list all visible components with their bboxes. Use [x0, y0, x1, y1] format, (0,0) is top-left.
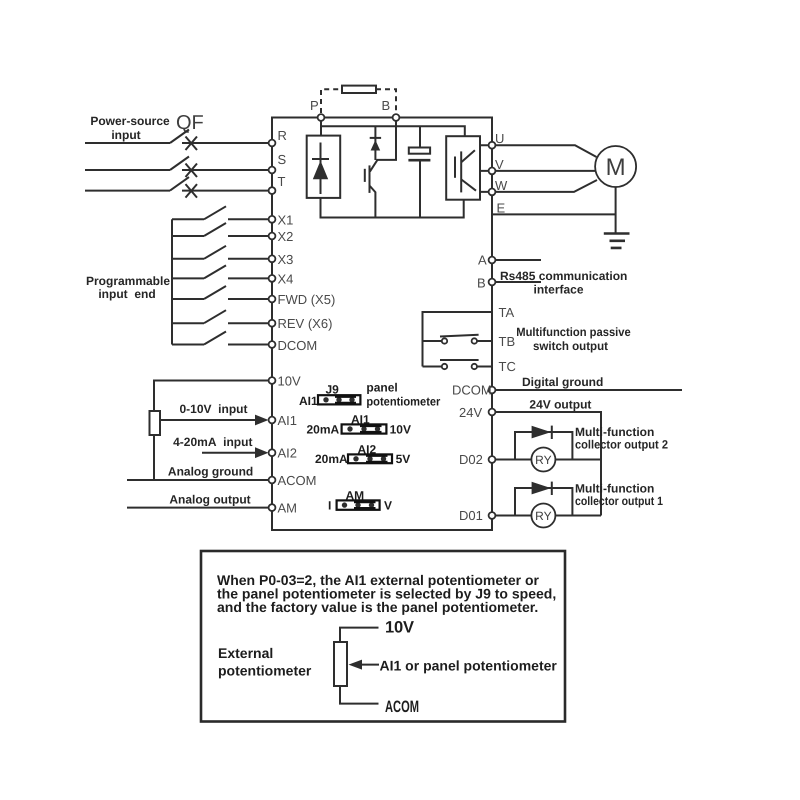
svg-text:input: input: [111, 128, 140, 142]
terminal X3: [269, 255, 276, 262]
jumper AM: [337, 500, 380, 509]
svg-text:T: T: [278, 174, 286, 189]
svg-text:Multifunction passive: Multifunction passive: [516, 325, 631, 339]
terminal P: [318, 114, 325, 121]
inverter IGBT collector: [461, 150, 475, 162]
chopper IGBT emitter: [370, 186, 376, 218]
terminal X4: [269, 275, 276, 282]
switch blade QF pole S: [170, 157, 189, 171]
chopper IGBT gate bar: [364, 169, 366, 182]
relay common wire TA: [423, 312, 493, 367]
terminal B: [393, 114, 400, 121]
terminal S: [269, 167, 276, 174]
svg-text:potentiometer: potentiometer: [218, 663, 312, 679]
svg-text:TA: TA: [499, 305, 515, 320]
wire 4-20mA to AI2: [202, 452, 258, 454]
motor M1: [595, 146, 636, 187]
wire A RS485: [492, 259, 541, 261]
terminal X1: [269, 216, 276, 223]
svg-text:collector output 1: collector output 1: [575, 494, 663, 508]
wire 10V feed: [154, 381, 272, 481]
terminal R: [269, 140, 276, 147]
switch X4: [172, 265, 272, 278]
svg-text:U: U: [495, 131, 504, 146]
diode D02: [532, 426, 551, 439]
svg-text:AM: AM: [346, 489, 365, 503]
terminal AI2: [269, 449, 276, 456]
chopper IGBT collector: [370, 160, 378, 172]
braking resistor dashed link P side: [321, 89, 342, 113]
D02 freewheel loop: [515, 432, 572, 460]
svg-text:V: V: [495, 157, 504, 172]
wire analog ground: [127, 479, 272, 481]
svg-text:20mA: 20mA: [307, 423, 340, 437]
chopper diode triangle: [371, 140, 381, 151]
svg-text:J9: J9: [326, 383, 340, 397]
terminal FWD (X5): [269, 296, 276, 303]
svg-text:D02: D02: [459, 452, 483, 467]
wire 24V output: [492, 412, 601, 516]
diode D01: [532, 482, 551, 495]
svg-text:5V: 5V: [396, 452, 411, 466]
svg-text:I: I: [328, 499, 331, 513]
main inverter box: [272, 118, 492, 531]
switch X2: [172, 223, 272, 236]
wire S to terminal: [182, 169, 272, 171]
terminal AM: [269, 504, 276, 511]
svg-text:10V: 10V: [385, 619, 414, 637]
svg-text:ACOM: ACOM: [278, 473, 317, 488]
svg-text:M: M: [606, 154, 626, 181]
terminal D02: [489, 456, 496, 463]
inverter IGBT gate bar: [454, 157, 456, 178]
wire digital ground: [492, 389, 682, 391]
svg-text:FWD (X5): FWD (X5): [278, 292, 336, 307]
svg-text:potentiometer: potentiometer: [366, 395, 440, 409]
switch FWD: [172, 286, 272, 299]
terminal T: [269, 187, 276, 194]
svg-text:input end: input end: [98, 287, 155, 301]
wire D01 branch: [492, 515, 601, 517]
wire U output: [480, 145, 597, 157]
svg-text:TB: TB: [499, 334, 516, 349]
relay coil RY 1: [531, 504, 555, 528]
digital input bus: [171, 219, 173, 344]
wire DC bus bottom rail: [321, 198, 464, 218]
note box: [201, 551, 565, 722]
switch blade QF pole R: [170, 130, 189, 144]
DC bus capacitor top lead: [419, 126, 421, 147]
svg-text:Programmable: Programmable: [86, 274, 170, 288]
rectifier module box: [307, 136, 341, 198]
svg-text:TC: TC: [499, 359, 516, 374]
terminal X2: [269, 233, 276, 240]
chopper IGBT channel bar: [369, 165, 371, 193]
rectifier diode cathode bar: [312, 158, 329, 160]
svg-text:and the factory value is the p: and the factory value is the panel poten…: [217, 599, 538, 615]
svg-text:10V: 10V: [390, 423, 411, 437]
terminal 10V: [269, 377, 276, 384]
svg-text:X2: X2: [278, 229, 294, 244]
pot wiper wire to AI1: [160, 419, 258, 421]
svg-text:DCOM: DCOM: [278, 338, 318, 353]
inverter module box: [446, 136, 480, 200]
svg-text:AI2: AI2: [278, 446, 298, 461]
motor stem wire: [615, 187, 617, 234]
svg-text:AI2: AI2: [358, 443, 377, 457]
svg-text:Digital ground: Digital ground: [522, 375, 603, 389]
terminal AI1: [269, 417, 276, 424]
external potentiometer body (note): [334, 642, 347, 686]
wire R phase left: [85, 142, 170, 144]
D01 freewheel loop: [515, 488, 572, 516]
wire D02 branch: [492, 459, 601, 461]
svg-text:E: E: [497, 201, 506, 216]
svg-text:Power-source: Power-source: [90, 114, 170, 128]
capacitor top plate: [409, 148, 430, 154]
svg-text:Analog output: Analog output: [169, 493, 250, 507]
wire R to terminal: [182, 142, 272, 144]
terminal W: [489, 189, 496, 196]
svg-text:AM: AM: [278, 501, 298, 516]
jumper AI2: [348, 454, 392, 463]
braking resistor dashed link B side: [376, 89, 396, 113]
switch REV: [172, 310, 272, 323]
chopper diode cathode bar: [370, 137, 381, 139]
svg-text:R: R: [278, 128, 287, 143]
inverter IGBT channel bar: [460, 151, 462, 192]
fuse X mark T: [186, 184, 198, 198]
terminal B RS485: [489, 279, 496, 286]
svg-text:0-10V input: 0-10V input: [179, 402, 247, 416]
fuse X mark R: [186, 137, 198, 151]
svg-text:20mA: 20mA: [315, 452, 348, 466]
svg-text:collector output 2: collector output 2: [575, 438, 668, 452]
terminal A: [489, 257, 496, 264]
ground symbol: [604, 234, 630, 248]
svg-text:QF: QF: [176, 112, 204, 134]
svg-text:panel: panel: [366, 381, 397, 395]
wire T to terminal: [182, 190, 272, 192]
terminal V: [489, 168, 496, 175]
4-20mA arrowhead: [255, 447, 269, 458]
terminal D01: [489, 512, 496, 519]
svg-text:Analog ground: Analog ground: [168, 465, 253, 479]
switch blade QF pole T: [170, 177, 189, 191]
wire V output: [480, 170, 595, 172]
terminal DCOM left: [269, 341, 276, 348]
svg-text:REV (X6): REV (X6): [278, 316, 333, 331]
terminal DCOM right: [489, 387, 496, 394]
svg-text:24V output: 24V output: [529, 398, 591, 412]
svg-text:Rs485 communication: Rs485 communication: [500, 269, 627, 283]
svg-text:X3: X3: [278, 252, 294, 267]
switch X1: [172, 206, 272, 219]
wire T phase left: [85, 190, 170, 192]
relay contact TC: [423, 366, 493, 368]
svg-text:4-20mA input: 4-20mA input: [173, 435, 252, 449]
svg-text:switch output: switch output: [533, 339, 608, 353]
switch DCOM: [172, 332, 272, 345]
svg-text:External: External: [218, 645, 273, 661]
wiper arrowhead: [255, 415, 269, 426]
svg-text:RY: RY: [535, 453, 551, 467]
braking resistor: [342, 86, 376, 93]
relay coil RY 2: [531, 448, 555, 472]
svg-text:A: A: [478, 253, 487, 268]
svg-text:24V: 24V: [459, 405, 482, 420]
wire W output: [480, 180, 597, 192]
svg-text:B: B: [477, 276, 486, 291]
svg-text:AI1: AI1: [278, 413, 298, 428]
relay contact TB: [423, 340, 493, 342]
jumper AI1: [342, 424, 387, 433]
chopper diode wire: [374, 126, 376, 160]
terminal 24V: [489, 409, 496, 416]
svg-text:X4: X4: [278, 271, 294, 286]
svg-text:S: S: [278, 152, 287, 167]
rectifier diode triangle: [313, 161, 328, 180]
pot 10V lead: [340, 628, 379, 704]
wire P drop to rectifier: [320, 118, 322, 136]
svg-text:W: W: [495, 178, 508, 193]
svg-text:V: V: [384, 499, 392, 513]
svg-text:10V: 10V: [278, 374, 301, 389]
wire B RS485: [492, 281, 541, 283]
switch X3: [172, 246, 272, 259]
terminal REV (X6): [269, 320, 276, 327]
fuse X mark S: [186, 164, 198, 178]
wire DC bus top rail: [321, 126, 465, 136]
external potentiometer body: [150, 411, 161, 435]
jumper J9: [318, 395, 360, 404]
wire analog output: [127, 507, 272, 509]
svg-text:AI1 or panel potentiometer: AI1 or panel potentiometer: [380, 658, 558, 674]
svg-text:interface: interface: [533, 283, 583, 297]
rectifier diode wire: [320, 143, 322, 195]
svg-text:AI1: AI1: [351, 413, 370, 427]
svg-text:B: B: [382, 98, 391, 113]
inverter IGBT emitter: [461, 180, 476, 191]
svg-text:AI1: AI1: [299, 394, 318, 408]
wire E ground line: [492, 213, 616, 215]
svg-text:X1: X1: [278, 212, 294, 227]
svg-text:D01: D01: [459, 508, 483, 523]
terminal ACOM: [269, 477, 276, 484]
wire S phase left: [85, 169, 170, 171]
wire B drop to chopper node: [376, 118, 396, 160]
svg-text:DCOM: DCOM: [452, 383, 492, 398]
svg-text:ACOM: ACOM: [385, 698, 419, 716]
svg-text:P: P: [310, 98, 319, 113]
svg-text:RY: RY: [535, 509, 551, 523]
terminal U: [489, 142, 496, 149]
capacitor bottom lead: [419, 161, 421, 217]
wiper arrow into pot: [360, 664, 379, 666]
capacitor bottom plate: [408, 159, 430, 162]
